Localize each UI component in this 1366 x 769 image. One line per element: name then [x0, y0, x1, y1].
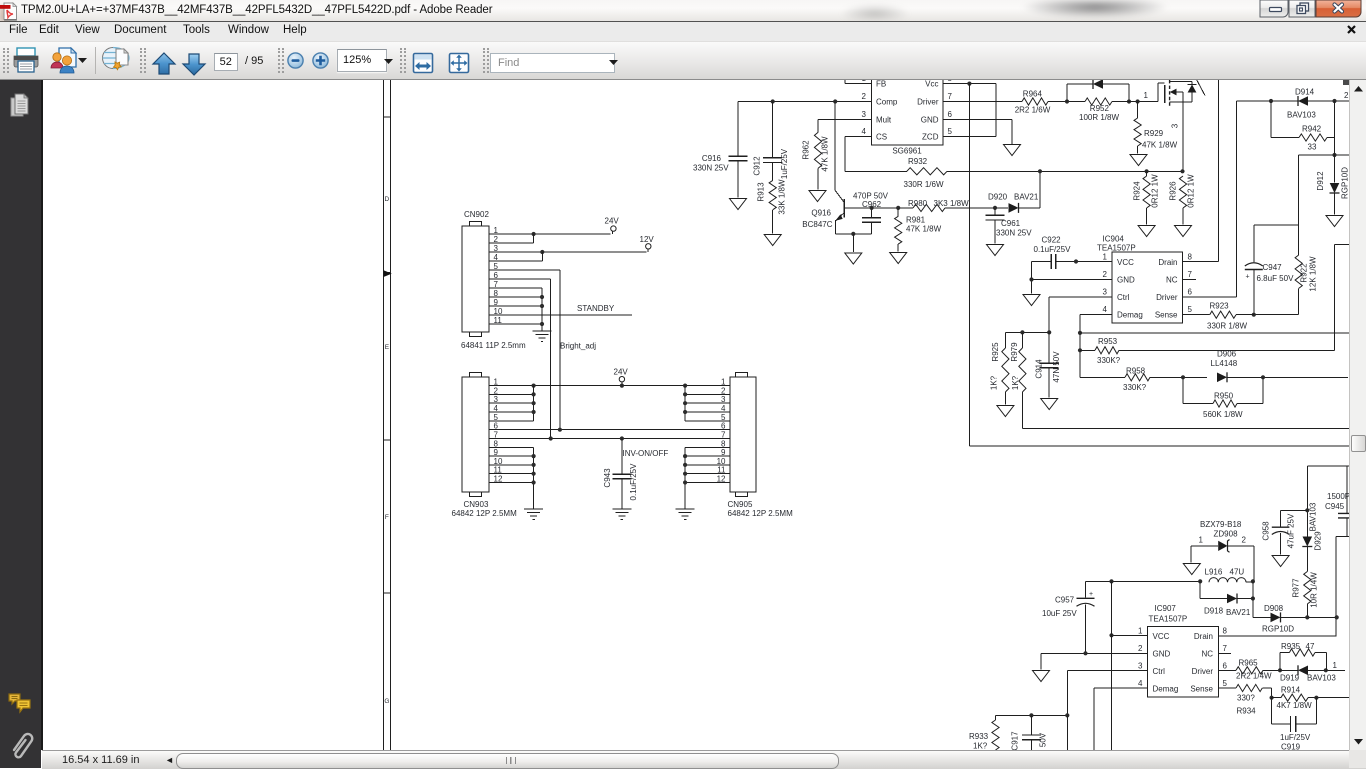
svg-text:1uF/25V: 1uF/25V	[780, 148, 789, 179]
svg-text:Driver: Driver	[1156, 293, 1178, 302]
svg-text:R980: R980	[908, 199, 928, 208]
ground R962	[809, 191, 826, 202]
svg-text:D919: D919	[1280, 674, 1300, 683]
svg-text:7: 7	[721, 430, 726, 439]
svg-text:1: 1	[862, 80, 867, 83]
window title bar	[0, 0, 1366, 22]
svg-text:D: D	[385, 196, 390, 203]
svg-text:SG6961: SG6961	[892, 147, 922, 156]
diode bypass over R952	[1067, 79, 1129, 102]
junction dot D920 to R932 rail	[1038, 169, 1042, 173]
svg-text:330N 25V: 330N 25V	[996, 229, 1032, 238]
wire R952 to MOSFET gate	[1112, 101, 1158, 103]
resistor R958	[1080, 374, 1207, 381]
wire base node to R980	[872, 207, 913, 209]
svg-text:330K?: 330K?	[1097, 356, 1121, 365]
wire ZD908 cathode down	[1253, 546, 1255, 582]
resistor R929	[1134, 102, 1141, 154]
svg-text:Demag: Demag	[1153, 685, 1179, 694]
svg-text:Demag: Demag	[1117, 311, 1143, 320]
toolbar	[0, 42, 1366, 80]
resistor R933	[992, 715, 999, 750]
connector CN903	[462, 373, 489, 497]
svg-text:47U: 47U	[1230, 568, 1245, 577]
wire CN902 pin8	[489, 296, 542, 298]
svg-text:5: 5	[1188, 305, 1193, 314]
ground CN905	[676, 509, 695, 519]
svg-text:10R 1/4W: 10R 1/4W	[1310, 572, 1319, 608]
window buttons	[1256, 0, 1366, 20]
svg-text:64842 12P 2.5MM: 64842 12P 2.5MM	[728, 509, 794, 518]
svg-text:0.1uF/25V: 0.1uF/25V	[1034, 245, 1072, 254]
transistor MOSFET Q9xx power switch	[1158, 80, 1205, 172]
wire IC904 Sense stub	[1183, 314, 1210, 316]
junction dot R977 bottom	[1305, 615, 1309, 619]
resistor R925	[1002, 332, 1009, 404]
ground R924	[1138, 226, 1155, 237]
svg-text:G: G	[384, 698, 389, 705]
junction dot C958 branch	[1305, 508, 1309, 512]
svg-text:8: 8	[1188, 253, 1193, 262]
ground C916	[730, 199, 747, 210]
svg-text:Q916: Q916	[811, 209, 831, 218]
ground C958	[1272, 556, 1289, 567]
wire CN903 pin6 to CN905 pin6	[489, 429, 730, 431]
svg-text:R964: R964	[1023, 89, 1043, 98]
comments icon	[7, 692, 33, 714]
svg-text:C958: C958	[1262, 521, 1271, 541]
junction dot D908 drain bus	[1335, 615, 1339, 619]
ground R926	[1175, 226, 1192, 237]
svg-text:BC847C: BC847C	[802, 220, 832, 229]
junction dot pin9	[540, 304, 544, 308]
svg-text:2R2 1/6W: 2R2 1/6W	[1015, 106, 1051, 115]
junction dots CN905 pins2-4	[683, 392, 687, 396]
junction dots CN903 pins9-12	[532, 454, 536, 458]
controller IC904 TEA1507P box	[1112, 252, 1183, 323]
svg-text:7: 7	[1223, 644, 1228, 653]
junction dot bypass left	[1065, 99, 1069, 103]
svg-text:100R 1/8W: 100R 1/8W	[1079, 113, 1119, 122]
svg-text:8: 8	[948, 80, 953, 83]
svg-text:CN905: CN905	[728, 500, 753, 509]
svg-text:560K 1/8W: 560K 1/8W	[1203, 410, 1243, 419]
fit page icon	[448, 52, 470, 74]
svg-text:Sense: Sense	[1190, 685, 1213, 694]
svg-text:Ctrl: Ctrl	[1153, 667, 1166, 676]
svg-text:2: 2	[862, 92, 867, 101]
junction dot R924 top	[1145, 169, 1149, 173]
junction dot D919 left	[1278, 668, 1282, 672]
diode D906 LL4148	[1217, 372, 1348, 382]
junction dots CN903 pins2-4	[532, 392, 536, 396]
capacitor C958 electrolytic	[1272, 527, 1290, 555]
svg-text:0.1uF/25V: 0.1uF/25V	[629, 463, 638, 501]
svg-text:6: 6	[1188, 288, 1193, 297]
junction dot D906 right	[1261, 375, 1265, 379]
wire CN902 pin5 down to CN903 pin6 net	[489, 270, 560, 430]
svg-text:7: 7	[948, 92, 953, 101]
svg-text:2: 2	[1103, 270, 1108, 279]
svg-text:R953: R953	[1098, 337, 1118, 346]
resistor R977	[1304, 572, 1311, 618]
svg-text:6: 6	[948, 110, 953, 119]
wire Driver net to D914 row	[1236, 100, 1350, 102]
wire CN902 pin10 STANDBY	[489, 314, 632, 316]
junction dot pin8	[540, 295, 544, 299]
resistor R979	[1019, 332, 1026, 428]
wire SG6961 GND pin6	[943, 120, 1012, 145]
wire ZD908 anode to ground	[1190, 546, 1192, 563]
junction dot R981 top	[896, 206, 900, 210]
wire IC907 GND pin2	[1041, 653, 1148, 669]
diode D914 BAV103	[1298, 96, 1308, 106]
diode D920 BAV21	[1009, 171, 1041, 213]
junction dot D919 right	[1324, 668, 1328, 672]
ground C961	[987, 245, 1004, 256]
ground CN903	[524, 509, 543, 519]
svg-text:INV-ON/OFF: INV-ON/OFF	[623, 449, 669, 458]
capacitor C917	[1022, 715, 1041, 750]
svg-text:Ctrl: Ctrl	[1117, 293, 1130, 302]
svg-text:D929: D929	[1314, 531, 1323, 551]
controller IC907 TEA1507P box	[1148, 627, 1219, 698]
svg-text:D912: D912	[1316, 171, 1325, 191]
svg-text:8: 8	[1223, 627, 1228, 636]
resistor R922	[1254, 225, 1302, 315]
svg-text:D914: D914	[1295, 88, 1315, 97]
svg-text:C943: C943	[603, 468, 612, 488]
svg-text:R965: R965	[1239, 659, 1259, 668]
wire C945 top feed	[1307, 465, 1350, 467]
svg-text:BAV103: BAV103	[1309, 502, 1318, 531]
nav arrows	[151, 52, 177, 76]
svg-text:ZCD: ZCD	[922, 133, 939, 142]
navigation sidebar	[0, 80, 41, 768]
diode D912 RGP10D	[1330, 155, 1340, 215]
svg-text:47K 1/8W: 47K 1/8W	[821, 136, 830, 172]
junction dot pin6 net	[558, 428, 562, 432]
ground CN902 pins	[533, 331, 552, 341]
junction dot Comp/C912	[771, 99, 775, 103]
svg-text:1: 1	[1103, 253, 1108, 262]
pages panel icon	[9, 92, 33, 120]
svg-text:STANDBY: STANDBY	[577, 304, 615, 313]
junction dot VCC C922	[1074, 259, 1078, 263]
junction dots pin7 net	[549, 436, 553, 440]
wire IC907 Ctrl pin3	[1067, 671, 1147, 716]
svg-text:1: 1	[1138, 627, 1143, 636]
svg-text:3: 3	[1103, 288, 1108, 297]
svg-text:R933: R933	[969, 732, 989, 741]
svg-text:C922: C922	[1042, 236, 1062, 245]
junction dot C914 top	[1047, 330, 1051, 334]
svg-text:GND: GND	[1117, 276, 1135, 285]
op-amp/controller IC SG6961 U-box	[872, 72, 944, 145]
svg-text:3K3 1/8W: 3K3 1/8W	[934, 199, 970, 208]
junction dot L916 right	[1251, 579, 1255, 583]
svg-text:50V: 50V	[1039, 732, 1048, 747]
wire CN903 pins8-12 ground bus	[489, 447, 534, 508]
junction dot D912 top	[1332, 153, 1336, 157]
connector CN902	[462, 222, 489, 337]
ground IC907 GND	[1033, 671, 1050, 682]
junction dot L916 left	[1198, 579, 1202, 583]
svg-text:R962: R962	[802, 140, 811, 160]
svg-text:R924: R924	[1133, 181, 1142, 201]
svg-text:C914: C914	[1035, 359, 1044, 379]
svg-text:1: 1	[1199, 536, 1204, 545]
resistor R932	[907, 168, 947, 175]
resistor R913	[769, 180, 776, 233]
svg-text:2R2 1/4W: 2R2 1/4W	[1236, 672, 1272, 681]
junction dot Vcc	[967, 82, 971, 86]
wire Ctrl rail down	[1066, 715, 1068, 750]
wire IC904 Demag pin4	[1080, 315, 1112, 378]
junction dot R929 top	[1136, 99, 1140, 103]
junction dot D918 right	[1251, 596, 1255, 600]
wire SG6961 Driver pin7	[943, 101, 1022, 103]
svg-text:Driver: Driver	[917, 98, 939, 107]
junction dot R914 right	[1314, 696, 1318, 700]
svg-text:330?: 330?	[1237, 694, 1255, 703]
collaborate icon	[49, 47, 79, 74]
transistor Q916 BC847C	[835, 102, 871, 234]
wire SG6961 Vcc pin8	[943, 83, 996, 85]
svg-text:4: 4	[1103, 305, 1108, 314]
diode D919 BAV103	[1280, 665, 1345, 675]
wire CN903 pins2-5 bus	[489, 386, 534, 421]
wire IC907 VCC pin1	[1112, 634, 1148, 636]
svg-text:2: 2	[1138, 644, 1143, 653]
junction dot pin3/pin4	[540, 250, 544, 254]
diode D918 BAV21 loop	[1200, 581, 1253, 603]
zener diode ZD908 BZX79-B18	[1191, 540, 1254, 553]
svg-text:R942: R942	[1302, 125, 1322, 134]
wire CN902 pin3 to 12V	[489, 249, 648, 252]
zoom out / in buttons	[287, 52, 304, 69]
wire bottom rail	[996, 714, 1068, 716]
capacitor C962	[862, 208, 881, 234]
resistor R981	[895, 208, 902, 252]
junction dot GND/C922	[1029, 277, 1033, 281]
svg-text:D908: D908	[1264, 604, 1284, 613]
svg-text:NC: NC	[1166, 276, 1178, 285]
svg-text:D906: D906	[1217, 350, 1237, 359]
resistor R914	[1272, 694, 1350, 701]
svg-text:33K 1/8W: 33K 1/8W	[778, 179, 787, 215]
svg-text:5: 5	[1223, 679, 1228, 688]
wire SG6961 Comp pin2 rail	[738, 102, 872, 157]
capacitor C945	[1338, 466, 1354, 536]
svg-text:1uF/25V: 1uF/25V	[1280, 733, 1311, 742]
resistor R962	[814, 132, 821, 189]
wire CN902 pin9	[489, 305, 542, 307]
wire D929 feed	[1306, 466, 1308, 537]
terminal 24V lower	[619, 377, 624, 382]
junction dot bypass right	[1127, 99, 1131, 103]
svg-text:0R12 1W: 0R12 1W	[1151, 174, 1160, 208]
wire CN902 pin1 to 24V	[489, 232, 613, 234]
ground R981	[890, 253, 907, 264]
svg-text:BAV103: BAV103	[1287, 111, 1316, 120]
connector CN905	[730, 373, 756, 497]
svg-text:Mult: Mult	[876, 116, 892, 125]
wire R964 to R952	[1048, 101, 1085, 103]
view position arrow marker	[384, 270, 392, 277]
resistor R926	[1179, 176, 1186, 225]
wire C947 R922 top rail	[1254, 224, 1299, 226]
pdf file icon	[0, 0, 32, 21]
svg-text:LL4148: LL4148	[1211, 359, 1238, 368]
wire SG6961 Mult pin3	[818, 120, 872, 133]
svg-text:C917: C917	[1011, 731, 1020, 750]
wire CN902 pin4	[489, 252, 542, 261]
svg-text:CN902: CN902	[464, 210, 489, 219]
junction dot C917 top	[1029, 713, 1033, 717]
wire IC907 NC stub	[1219, 652, 1232, 654]
svg-text:1: 1	[1333, 661, 1338, 670]
wire IC907 Demag pin4	[1094, 688, 1147, 750]
junction dots on 24V bus	[532, 384, 536, 388]
svg-text:R981: R981	[906, 216, 926, 225]
junction dot R923/C947	[1252, 313, 1256, 317]
ground D912	[1326, 216, 1343, 227]
ground R913	[764, 235, 781, 246]
wire CN903 pin7 to CN905 pin7 INV-ON/OFF	[489, 438, 730, 440]
resistor R964	[1022, 98, 1048, 105]
svg-text:3: 3	[1138, 662, 1143, 671]
svg-text:4: 4	[1138, 679, 1143, 688]
wire L916 right	[1246, 581, 1253, 583]
wire CN902 pin11	[489, 323, 542, 325]
svg-text:C945: C945	[1325, 502, 1345, 511]
svg-text:3: 3	[1171, 123, 1180, 128]
svg-text:F: F	[385, 514, 389, 521]
wire VCC rail lower	[1086, 580, 1201, 582]
svg-text:330N 25V: 330N 25V	[693, 164, 729, 173]
svg-text:12K 1/8W: 12K 1/8W	[1309, 256, 1318, 292]
resistor R980	[913, 204, 945, 211]
wire IC904 Driver to D914 net	[1183, 101, 1237, 297]
svg-text:R932: R932	[908, 157, 928, 166]
svg-text:Vcc: Vcc	[925, 80, 938, 89]
svg-text:TEA1507P: TEA1507P	[1097, 244, 1136, 253]
svg-text:VCC: VCC	[1117, 258, 1134, 267]
junction dot R942 left	[1269, 99, 1273, 103]
junction dot R942 right	[1332, 99, 1336, 103]
junction dot emitter/ground	[851, 232, 855, 236]
junction dot GND/C957	[1083, 651, 1087, 655]
wire CN905 pins2-5 bus	[685, 386, 730, 421]
svg-text:R977: R977	[1292, 578, 1301, 598]
svg-text:24V: 24V	[605, 217, 620, 226]
wire D912 branch	[1299, 155, 1350, 225]
svg-text:1K?: 1K?	[1011, 375, 1020, 390]
svg-text:10uF 25V: 10uF 25V	[1042, 609, 1077, 618]
svg-text:IC907: IC907	[1155, 604, 1177, 613]
paperclip icon	[8, 730, 34, 760]
capacitor C947 electrolytic	[1245, 225, 1263, 315]
sheet frame left border	[383, 80, 390, 750]
svg-text:12V: 12V	[640, 235, 655, 244]
wire Vcc rail down and right to edge	[969, 84, 1350, 446]
wire IC904 Drain to top	[1183, 80, 1219, 262]
svg-text:GND: GND	[921, 116, 939, 125]
junction dot VCC vertical	[1109, 579, 1113, 583]
svg-text:BAV21: BAV21	[1226, 608, 1251, 617]
ground R925	[997, 406, 1014, 417]
svg-text:C916: C916	[702, 154, 722, 163]
svg-text:24V: 24V	[614, 368, 629, 377]
wire IC904 Ctrl pin3	[1049, 297, 1112, 332]
svg-text:7: 7	[1188, 270, 1193, 279]
svg-text:C919: C919	[1281, 743, 1301, 751]
junction dot Comp/Q916 collector	[833, 99, 837, 103]
svg-text:CS: CS	[876, 133, 887, 142]
svg-text:2: 2	[1242, 536, 1247, 545]
capacitor C961	[986, 208, 1005, 244]
junction dot Demag rail1	[1078, 331, 1082, 335]
svg-text:GND: GND	[1153, 650, 1171, 659]
capacitor C914	[1040, 332, 1059, 397]
wire CN905 pins8-12 ground bus	[685, 447, 730, 508]
svg-text:47K 1/8W: 47K 1/8W	[1142, 141, 1178, 150]
svg-text:R925: R925	[991, 342, 1000, 362]
svg-text:VCC: VCC	[1153, 632, 1170, 641]
svg-text:3: 3	[862, 110, 867, 119]
svg-text:+: +	[1246, 274, 1250, 281]
svg-text:+: +	[1089, 591, 1093, 598]
wire R980 to D920	[945, 207, 1008, 209]
svg-text:R952: R952	[1090, 104, 1110, 113]
svg-text:NC: NC	[1201, 650, 1213, 659]
wire IC907 Drain pin8	[1219, 635, 1337, 637]
svg-text:R914: R914	[1281, 686, 1301, 695]
svg-text:0R12 1W: 0R12 1W	[1187, 174, 1196, 208]
inductor L916 47U	[1209, 578, 1246, 583]
svg-text:R926: R926	[1169, 181, 1178, 201]
svg-text:5: 5	[948, 127, 953, 136]
junction dot C961 top	[993, 206, 997, 210]
ground ZD908	[1183, 564, 1200, 575]
svg-text:BAV21: BAV21	[1014, 193, 1039, 202]
resistor R950 loop	[1183, 377, 1263, 407]
wire Demag long rail to right edge	[1080, 332, 1350, 334]
svg-text:L916: L916	[1205, 568, 1223, 577]
wire CN902 pin2	[489, 234, 534, 243]
junction dot pin1/pin2	[532, 232, 536, 236]
wire SG6961 CS pin4 to R932 rail	[845, 137, 1183, 172]
resistor R924	[1143, 171, 1150, 224]
svg-text:6: 6	[1223, 662, 1228, 671]
resistor R952	[1085, 98, 1112, 105]
ground Q916 emitter	[845, 253, 862, 264]
svg-text:47K 1/8W: 47K 1/8W	[906, 225, 942, 234]
capacitor C943	[612, 439, 631, 509]
svg-text:64841 11P 2.5mm: 64841 11P 2.5mm	[461, 341, 526, 350]
svg-text:ZD908: ZD908	[1214, 530, 1239, 539]
resistor R953	[1080, 245, 1350, 354]
wire IC904 NC stub	[1183, 279, 1197, 281]
resistor R965	[1219, 667, 1281, 674]
svg-text:Bright_adj: Bright_adj	[560, 342, 596, 351]
svg-text:CN903: CN903	[464, 500, 489, 509]
capacitor C916	[729, 156, 748, 197]
capacitor C922	[1032, 254, 1113, 294]
svg-text:1K?: 1K?	[990, 375, 999, 390]
resistor R934	[1219, 684, 1272, 697]
